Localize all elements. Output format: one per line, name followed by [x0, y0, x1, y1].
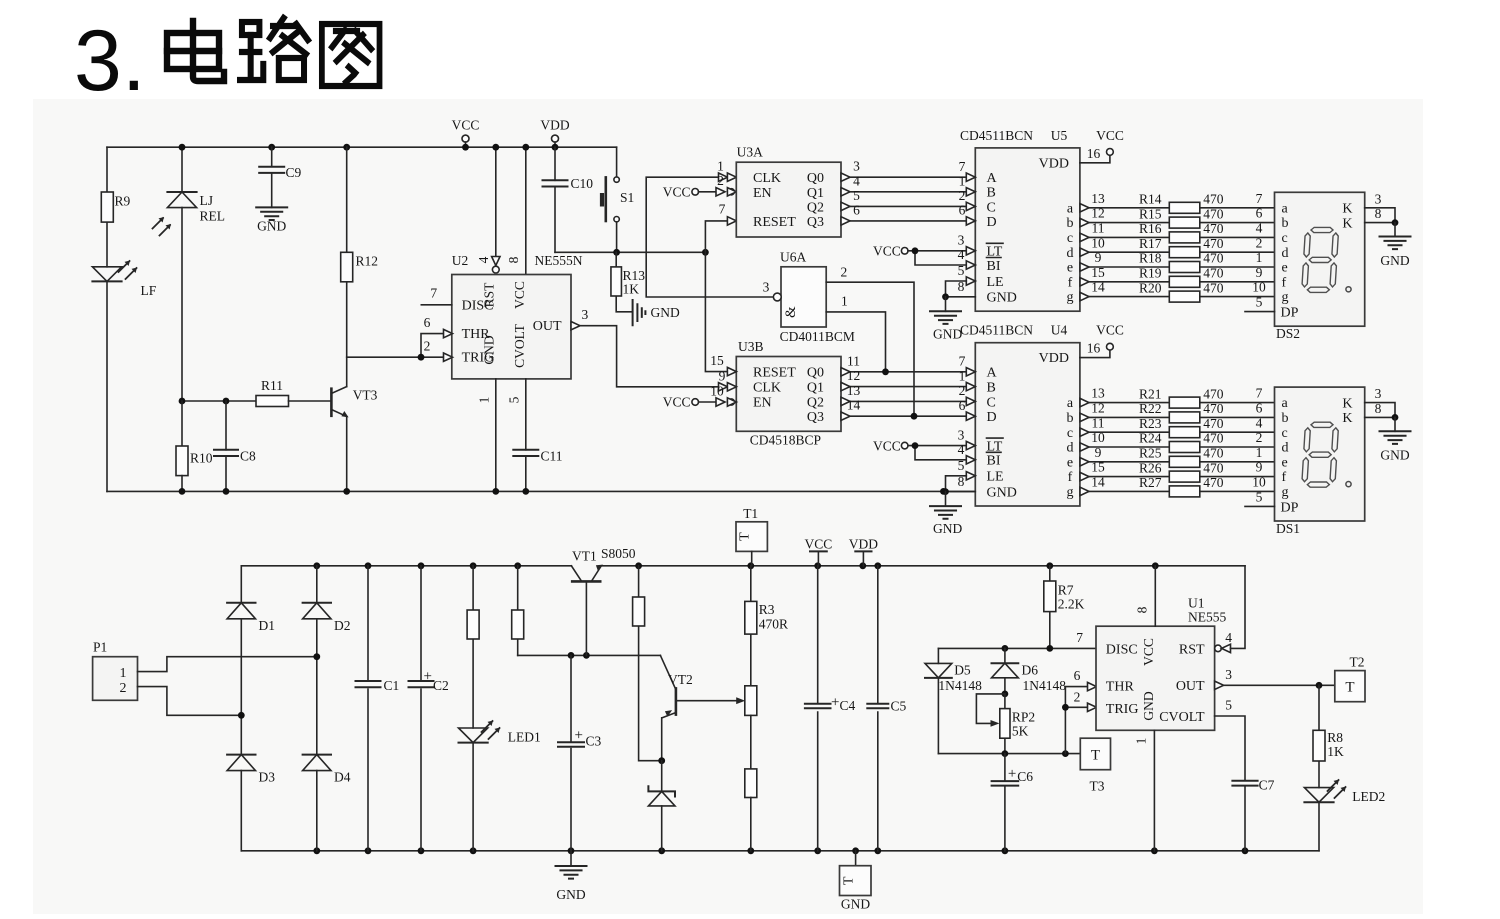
svg-text:3: 3	[1375, 386, 1382, 401]
svg-text:R7: R7	[1058, 583, 1074, 598]
svg-text:470: 470	[1203, 266, 1224, 281]
svg-text:9: 9	[1095, 445, 1102, 460]
svg-text:3: 3	[1375, 191, 1382, 206]
svg-text:f: f	[1068, 470, 1073, 485]
svg-text:f: f	[1282, 470, 1287, 485]
svg-text:Q1: Q1	[807, 186, 824, 201]
svg-text:470: 470	[1203, 446, 1224, 461]
junction	[179, 144, 186, 151]
svg-text:3: 3	[1225, 667, 1232, 682]
svg-text:2: 2	[1256, 430, 1263, 445]
7-segment digit glyph of DS2	[1302, 227, 1339, 292]
resistor above VT2	[633, 597, 645, 626]
pin 5 DP of DS1	[1245, 505, 1275, 507]
svg-text:VCC: VCC	[873, 244, 901, 259]
svg-text:10: 10	[710, 384, 724, 399]
svg-text:a: a	[1067, 201, 1074, 216]
svg-text:R17: R17	[1139, 236, 1162, 251]
svg-text:6: 6	[1256, 401, 1263, 416]
svg-text:T: T	[1345, 680, 1354, 696]
resistor R15 470	[1169, 217, 1200, 228]
svg-text:K: K	[1342, 216, 1352, 231]
svg-text:T: T	[738, 532, 753, 541]
7-segment digit glyph of DS1	[1302, 422, 1339, 487]
U2 pin 4 RST line	[495, 147, 497, 256]
svg-text:TRIG: TRIG	[1106, 702, 1139, 717]
svg-text:470R: 470R	[759, 617, 788, 632]
svg-text:1: 1	[959, 174, 966, 189]
resistor R23 470	[1169, 427, 1200, 438]
svg-text:LED2: LED2	[1352, 789, 1385, 804]
svg-text:5: 5	[853, 188, 860, 203]
wire VT2 emitter down	[661, 718, 663, 761]
svg-text:B: B	[987, 381, 996, 396]
svg-text:VT1: VT1	[572, 549, 597, 564]
wire bridge right branch	[316, 566, 318, 851]
svg-text:Q1: Q1	[807, 381, 824, 396]
pin 5 CVOLT of U1	[1215, 716, 1245, 781]
resistor R21 470	[1169, 397, 1200, 408]
capacitor C11	[513, 450, 538, 456]
svg-text:g: g	[1067, 290, 1074, 305]
IC U2 NE555N	[452, 275, 571, 379]
title glyph TU (drawing)	[322, 24, 380, 86]
resistor R25 470	[1169, 456, 1200, 467]
svg-text:470: 470	[1203, 251, 1224, 266]
svg-text:C: C	[987, 395, 996, 410]
capacitor C8	[225, 401, 227, 491]
svg-text:C7: C7	[1259, 778, 1275, 793]
svg-text:LF: LF	[141, 283, 157, 298]
svg-text:2: 2	[717, 173, 724, 188]
wire U3A CLK net	[646, 177, 773, 297]
svg-text:U4: U4	[1051, 323, 1068, 338]
svg-text:10: 10	[1252, 475, 1266, 490]
svg-text:6: 6	[959, 398, 966, 413]
svg-text:470: 470	[1203, 460, 1224, 475]
svg-text:LE: LE	[987, 470, 1004, 485]
pin 9 CLK U3B	[719, 383, 728, 391]
wire RP2 bottom node	[938, 753, 1080, 755]
svg-text:DS1: DS1	[1276, 521, 1300, 536]
svg-text:+: +	[1008, 766, 1016, 782]
svg-text:c: c	[1067, 426, 1073, 441]
svg-text:NE555N: NE555N	[535, 253, 583, 268]
pin 1 B of U4	[966, 382, 975, 390]
svg-text:R18: R18	[1139, 251, 1162, 266]
svg-text:c: c	[1067, 231, 1073, 246]
svg-text:GND: GND	[651, 305, 680, 320]
svg-text:THR: THR	[1106, 680, 1135, 695]
svg-text:2.2K: 2.2K	[1058, 597, 1085, 612]
ground below U4	[945, 492, 947, 507]
svg-text:4: 4	[1225, 630, 1232, 645]
svg-text:470: 470	[1203, 401, 1224, 416]
svg-text:4: 4	[1256, 415, 1263, 430]
wire C10/S1/R13 node	[555, 251, 705, 253]
U3B outputs Q0-Q3 wires to U4	[841, 368, 850, 376]
ground right of R13 (rotated)	[633, 300, 646, 325]
wire R12 branch	[343, 144, 350, 151]
svg-text:NE555: NE555	[1188, 610, 1226, 625]
svg-text:R16: R16	[1139, 221, 1162, 236]
wire bottom ground rail	[241, 850, 1319, 852]
svg-text:1K: 1K	[623, 282, 640, 297]
svg-text:4: 4	[1256, 221, 1263, 236]
svg-text:T: T	[1091, 748, 1100, 764]
wire P1 pin 1	[138, 657, 317, 672]
svg-text:Q3: Q3	[807, 215, 824, 230]
svg-text:15: 15	[710, 353, 724, 368]
svg-text:CLK: CLK	[753, 171, 781, 186]
connector P1	[93, 657, 138, 701]
svg-text:1: 1	[477, 397, 492, 404]
pin 2 output wire U6A to D line	[826, 282, 914, 416]
svg-text:a: a	[1282, 396, 1289, 411]
svg-text:7: 7	[1256, 386, 1263, 401]
svg-text:A: A	[987, 366, 998, 381]
svg-text:d: d	[1067, 246, 1074, 261]
svg-text:D1: D1	[259, 618, 276, 633]
svg-text:K: K	[1342, 411, 1352, 426]
svg-text:VT3: VT3	[353, 388, 378, 403]
svg-text:10: 10	[1252, 280, 1266, 295]
svg-text:14: 14	[1091, 475, 1105, 490]
svg-text:2: 2	[959, 383, 966, 398]
svg-text:GND: GND	[556, 887, 585, 902]
pin 7 RESET U3A	[727, 217, 736, 225]
svg-text:C4: C4	[840, 698, 856, 713]
IC U3B counter half	[736, 357, 841, 432]
svg-text:7: 7	[1256, 191, 1263, 206]
capacitor C5	[877, 566, 879, 851]
diode D3	[227, 754, 255, 756]
pin 7 A of U5	[966, 173, 975, 181]
svg-text:9: 9	[1256, 460, 1263, 475]
svg-text:2: 2	[959, 188, 966, 203]
svg-text:3: 3	[582, 307, 589, 322]
zener diode below VT2	[661, 761, 663, 792]
svg-text:T3: T3	[1090, 779, 1105, 794]
svg-text:3: 3	[763, 280, 770, 295]
pins 1 and 5 below U2	[495, 379, 497, 492]
svg-text:e: e	[1282, 455, 1288, 470]
svg-text:9: 9	[1095, 250, 1102, 265]
pin 3 OUT of U1	[1215, 681, 1224, 689]
svg-text:e: e	[1067, 261, 1073, 276]
svg-text:1: 1	[841, 294, 848, 309]
svg-text:CD4511BCN: CD4511BCN	[960, 128, 1033, 143]
svg-text:9: 9	[1256, 265, 1263, 280]
svg-text:C9: C9	[286, 165, 302, 180]
svg-text:C3: C3	[586, 734, 602, 749]
svg-text:5K: 5K	[1012, 724, 1029, 739]
svg-text:VDD: VDD	[1039, 351, 1069, 366]
svg-text:1K: 1K	[1327, 744, 1344, 759]
svg-text:5: 5	[1256, 295, 1263, 310]
svg-text:5: 5	[1225, 698, 1232, 713]
display DS2 7-segment	[1275, 192, 1365, 326]
pin 6/2 THR TRIG step	[347, 334, 444, 358]
svg-text:CD4011BCM: CD4011BCM	[780, 329, 855, 344]
svg-text:4: 4	[958, 442, 965, 457]
resistor R18 470	[1169, 262, 1200, 273]
svg-text:b: b	[1067, 411, 1074, 426]
svg-text:CD4511BCN: CD4511BCN	[960, 323, 1033, 338]
ground below U5	[945, 297, 947, 312]
svg-text:12: 12	[1091, 401, 1105, 416]
svg-text:GND: GND	[987, 291, 1017, 306]
transistor VT1 S8050	[572, 580, 600, 583]
svg-text:470: 470	[1203, 431, 1224, 446]
U3A outputs Q0-Q3 wires to U5	[841, 173, 850, 181]
wire VT1 base node line	[518, 654, 661, 656]
svg-text:T1: T1	[743, 506, 758, 521]
resistor R11	[256, 396, 289, 407]
svg-text:D2: D2	[334, 618, 351, 633]
wire P1 pin 2	[138, 687, 242, 716]
svg-text:b: b	[1282, 216, 1289, 231]
svg-text:e: e	[1067, 455, 1073, 470]
svg-text:+: +	[831, 695, 839, 711]
svg-text:1: 1	[1134, 738, 1149, 745]
svg-text:2: 2	[424, 339, 431, 354]
svg-text:RST: RST	[1179, 642, 1205, 657]
resistor R3 470R	[750, 566, 752, 686]
svg-text:a: a	[1067, 396, 1074, 411]
svg-text:RST: RST	[482, 282, 497, 308]
svg-text:5: 5	[958, 458, 965, 473]
svg-text:1N4148: 1N4148	[938, 678, 982, 693]
svg-text:BI: BI	[987, 259, 1001, 274]
svg-text:2: 2	[1256, 235, 1263, 250]
svg-text:470: 470	[1203, 416, 1224, 431]
resistor R7 2.2K	[1049, 566, 1051, 649]
pin 3 LT of U5	[966, 247, 975, 255]
wire LJ branch	[181, 147, 183, 401]
svg-text:8: 8	[958, 279, 965, 294]
svg-text:VT2: VT2	[668, 672, 693, 687]
svg-text:Q3: Q3	[807, 410, 824, 425]
svg-text:D5: D5	[954, 663, 971, 678]
svg-text:EN: EN	[753, 396, 772, 411]
pin 5 LE of U4	[966, 472, 975, 480]
svg-text:b: b	[1067, 216, 1074, 231]
svg-text:EN: EN	[753, 186, 772, 201]
svg-text:R12: R12	[356, 254, 379, 269]
svg-text:R23: R23	[1139, 416, 1162, 431]
svg-text:8: 8	[1375, 401, 1382, 416]
svg-text:14: 14	[1091, 280, 1105, 295]
svg-text:DISC: DISC	[1106, 642, 1138, 657]
ground below C3	[570, 851, 572, 866]
svg-text:LJ: LJ	[200, 193, 214, 208]
resistor lower of R3 chain	[745, 769, 757, 798]
pins 3/8 K cathode of DS1	[1365, 403, 1395, 418]
svg-text:12: 12	[847, 368, 861, 383]
pin 1 output wire U6A to A line	[826, 312, 885, 372]
svg-text:1: 1	[1256, 250, 1263, 265]
svg-text:C6: C6	[1017, 769, 1033, 784]
svg-text:4: 4	[958, 247, 965, 262]
svg-text:11: 11	[847, 353, 860, 368]
svg-text:C8: C8	[240, 449, 256, 464]
svg-text:P1: P1	[93, 640, 107, 655]
wire left branch R9/LF	[106, 147, 108, 491]
diode D6 1N4148	[1004, 648, 1006, 663]
svg-text:c: c	[1282, 231, 1288, 246]
svg-text:5: 5	[507, 396, 522, 403]
svg-text:U5: U5	[1051, 128, 1068, 143]
svg-text:VCC: VCC	[873, 438, 901, 453]
pin 1 CLK U3A	[719, 173, 728, 181]
svg-text:+: +	[424, 669, 432, 685]
svg-text:1: 1	[959, 368, 966, 383]
svg-text:Q0: Q0	[807, 365, 824, 380]
pin 2 EN U3A	[716, 188, 725, 196]
svg-text:D3: D3	[259, 770, 276, 785]
svg-text:DP: DP	[1281, 306, 1299, 321]
pin 5 LE of U5	[966, 277, 975, 285]
pin 8 GND of U5	[946, 296, 976, 298]
switch S1	[614, 177, 619, 182]
svg-text:OUT: OUT	[533, 319, 562, 334]
svg-text:R19: R19	[1139, 266, 1162, 281]
svg-text:470: 470	[1203, 221, 1224, 236]
svg-text:RESET: RESET	[753, 365, 796, 380]
svg-text:REL: REL	[200, 209, 226, 224]
wire THR TRIG taps of U1	[1065, 687, 1087, 754]
wire top ground rail	[107, 490, 975, 492]
svg-text:1N4148: 1N4148	[1023, 678, 1067, 693]
svg-text:R22: R22	[1139, 401, 1162, 416]
svg-text:7: 7	[959, 354, 966, 369]
gate U6A CD4011BCM	[781, 267, 826, 327]
svg-text:7: 7	[959, 159, 966, 174]
pin 10 EN U3B	[716, 398, 725, 406]
svg-text:15: 15	[1091, 460, 1105, 475]
svg-text:CD4518BCP: CD4518BCP	[750, 433, 821, 448]
svg-text:10: 10	[1091, 235, 1105, 250]
svg-text:6: 6	[424, 315, 431, 330]
wire base line R11 row	[182, 400, 256, 402]
pin 8 GND of U4	[946, 491, 976, 493]
pin 8 of U1	[1154, 566, 1156, 626]
svg-text:DS2: DS2	[1276, 326, 1300, 341]
svg-text:g: g	[1067, 485, 1074, 500]
svg-text:C: C	[987, 200, 996, 215]
pin 6 D of U4	[966, 412, 975, 420]
svg-text:R27: R27	[1139, 475, 1162, 490]
svg-text:d: d	[1282, 246, 1289, 261]
resistor R8 1K	[1318, 685, 1320, 787]
svg-text:RESET: RESET	[753, 215, 796, 230]
svg-text:8: 8	[506, 256, 521, 263]
diode D1	[227, 602, 255, 604]
wire DISC node line	[938, 647, 1096, 649]
svg-text:R8: R8	[1327, 730, 1343, 745]
svg-text:U6A: U6A	[780, 250, 806, 265]
svg-text:11: 11	[1092, 415, 1105, 430]
resistor R12	[341, 252, 353, 281]
LED LED2	[1304, 788, 1333, 803]
svg-text:R25: R25	[1139, 446, 1162, 461]
svg-text:470: 470	[1203, 206, 1224, 221]
transistor VT3	[330, 389, 333, 416]
svg-text:VCC: VCC	[663, 395, 691, 410]
svg-text:3: 3	[958, 427, 965, 442]
svg-text:GND: GND	[482, 335, 497, 364]
svg-text:8: 8	[958, 474, 965, 489]
wire bridge left branch	[240, 566, 242, 851]
svg-text:470: 470	[1203, 236, 1224, 251]
svg-text:D6: D6	[1022, 663, 1039, 678]
wire collector feed VT2	[639, 566, 662, 761]
svg-text:A: A	[987, 171, 998, 186]
svg-text:GND: GND	[1141, 691, 1156, 720]
wire rail corner to S1	[616, 147, 618, 177]
svg-text:LED1: LED1	[508, 730, 541, 745]
svg-text:6: 6	[959, 203, 966, 218]
junction U6A pin2 to D line	[911, 413, 918, 420]
svg-text:VDD: VDD	[849, 536, 878, 551]
potentiometer RP2 5K	[1002, 691, 1009, 698]
svg-text:Q2: Q2	[807, 200, 824, 215]
pin 7 DISC stub	[421, 304, 452, 306]
svg-text:R10: R10	[190, 451, 213, 466]
ground tap T-block bottom	[855, 851, 857, 866]
svg-text:R3: R3	[759, 602, 775, 617]
svg-text:S1: S1	[620, 190, 634, 205]
svg-text:GND: GND	[1380, 448, 1409, 463]
svg-text:g: g	[1282, 485, 1289, 500]
svg-text:GND: GND	[257, 219, 286, 234]
ground at DS2	[1394, 223, 1396, 237]
svg-text:1: 1	[1256, 445, 1263, 460]
svg-text:DP: DP	[1281, 500, 1299, 515]
capacitor C1	[367, 566, 369, 851]
svg-text:C1: C1	[384, 678, 400, 693]
resistor R17 470	[1169, 247, 1200, 258]
svg-text:CVOLT: CVOLT	[512, 323, 527, 368]
resistor R26 470	[1169, 471, 1200, 482]
svg-text:GND: GND	[987, 486, 1017, 501]
pin 2 C of U4	[966, 397, 975, 405]
svg-text:+: +	[575, 728, 583, 744]
resistor R10	[181, 401, 183, 446]
svg-text:VDD: VDD	[540, 118, 569, 133]
svg-text:5: 5	[1256, 490, 1263, 505]
svg-text:OUT: OUT	[1176, 679, 1205, 694]
transistor VT2	[660, 655, 676, 689]
svg-text:S8050: S8050	[601, 546, 636, 561]
svg-text:VCC: VCC	[1096, 128, 1124, 143]
svg-text:d: d	[1282, 441, 1289, 456]
svg-text:12: 12	[1091, 206, 1105, 221]
capacitor C9	[268, 144, 275, 151]
junction U6A pin1 to A line	[882, 368, 889, 375]
svg-text:d: d	[1067, 441, 1074, 456]
svg-text:GND: GND	[933, 521, 962, 536]
diode D4	[303, 754, 331, 756]
pin 4 BI of U4	[966, 456, 975, 464]
pin 6 D of U5	[966, 217, 975, 225]
transformer tap T2	[1335, 671, 1365, 702]
svg-text:VCC: VCC	[1096, 323, 1124, 338]
svg-text:K: K	[1342, 396, 1352, 411]
svg-text:3: 3	[958, 233, 965, 248]
display DS1 7-segment	[1275, 387, 1365, 521]
